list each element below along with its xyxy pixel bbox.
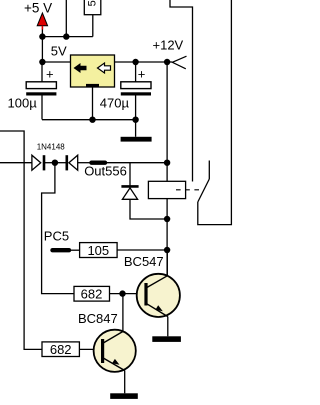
diode D2 1N4148 bbox=[55, 155, 90, 170]
wire R682b to Q2 base bbox=[79, 348, 101, 350]
wire relay coil bottom to node bbox=[166, 199, 168, 219]
wire R682a to Q1 base bbox=[110, 293, 146, 295]
node relay bottom bbox=[164, 216, 170, 222]
power flag +5V bbox=[24, 1, 52, 37]
transistor Q1 BC547 bbox=[137, 250, 180, 336]
svg-text:+5 V: +5 V bbox=[24, 1, 52, 16]
ground 3 (Q2 emitter) bbox=[110, 393, 138, 399]
svg-text:+: + bbox=[46, 67, 54, 82]
wire flyback branch bbox=[130, 163, 167, 219]
node ground rail right bbox=[132, 117, 138, 123]
svg-text:+: + bbox=[138, 67, 146, 82]
node top rail B bbox=[63, 33, 69, 39]
wire top rail y=36.6 bbox=[42, 36, 92, 38]
relay contact lever bbox=[198, 179, 210, 202]
resistor R1 (vertical, cut off at top) bbox=[84, 0, 101, 37]
label Out556 (bold stub) bbox=[92, 160, 106, 164]
node diode junction bbox=[52, 160, 58, 166]
svg-text:682: 682 bbox=[81, 287, 103, 302]
svg-text:BC547: BC547 bbox=[124, 254, 164, 269]
svg-text:PC5: PC5 bbox=[44, 229, 69, 244]
relay contact stub bbox=[208, 161, 210, 180]
node top rail A bbox=[39, 33, 45, 39]
wire up from node to top edge bbox=[65, 0, 67, 37]
capacitor C2 470u bbox=[100, 62, 151, 120]
wire PC5 stub to R 105 bbox=[69, 249, 80, 251]
wire Out556 to relay node bbox=[105, 162, 167, 164]
wire Q1-base node down to Q2 collector bbox=[122, 294, 124, 331]
wire left input upper (to Q2 base resistor) bbox=[0, 131, 42, 349]
svg-text:BC847: BC847 bbox=[78, 311, 118, 326]
resistor R3 682 bbox=[74, 286, 110, 301]
svg-text:Out556: Out556 bbox=[84, 163, 127, 178]
transistor Q2 BC847 bbox=[94, 330, 136, 394]
svg-text:470µ: 470µ bbox=[100, 95, 130, 110]
wire down to ground 1 bbox=[135, 120, 137, 137]
resistor R4 682 bbox=[42, 342, 79, 357]
relay K1 coil bbox=[148, 181, 199, 198]
node 470u top bbox=[132, 59, 138, 65]
relay contact terminal upper bbox=[170, 0, 193, 182]
wire left input diode row bbox=[0, 162, 32, 164]
svg-text:5: 5 bbox=[87, 0, 99, 6]
svg-text:+12V: +12V bbox=[153, 38, 184, 53]
wire from +5V node down to 5V rail bbox=[41, 37, 43, 62]
wire regulator ground bbox=[92, 87, 94, 120]
node +12V bbox=[164, 59, 170, 65]
wire 12V rail from regulator to connector bbox=[115, 61, 173, 63]
wire ground rail y=119.7 bbox=[42, 119, 136, 121]
svg-text:5V: 5V bbox=[51, 43, 67, 58]
wire +12V node down to relay bbox=[166, 62, 168, 181]
relay contact common bbox=[198, 0, 232, 225]
svg-text:682: 682 bbox=[50, 342, 72, 357]
diode D3 flyback bbox=[121, 186, 138, 199]
svg-text:1N4148: 1N4148 bbox=[37, 143, 66, 152]
wire R 105 to collector node bbox=[117, 249, 167, 251]
ground 1 bbox=[121, 137, 152, 142]
ground 2 (Q1 emitter) bbox=[152, 336, 181, 342]
node collector / R105 bbox=[164, 247, 170, 253]
wire 5V rail to regulator bbox=[42, 61, 70, 63]
node 5V rail left bbox=[39, 59, 45, 65]
voltage regulator U1 (5V from 12V) bbox=[71, 55, 115, 87]
node relay top bbox=[164, 160, 170, 166]
wire diode junction to R682a (jog) bbox=[42, 163, 74, 294]
node ground rail left bbox=[89, 117, 95, 123]
connector +12V (open chevron) bbox=[172, 56, 186, 69]
svg-text:105: 105 bbox=[87, 243, 109, 258]
wire relay bottom to Q1 collector bbox=[166, 219, 168, 276]
capacitor C1 100u bbox=[8, 62, 57, 120]
svg-text:100µ: 100µ bbox=[8, 96, 38, 111]
diode D1 1N4148 bbox=[32, 155, 55, 170]
label PC5 bold stub bbox=[53, 248, 70, 252]
resistor R2 105 bbox=[80, 243, 118, 258]
node Q1 base / Q2 collector bbox=[119, 290, 125, 296]
